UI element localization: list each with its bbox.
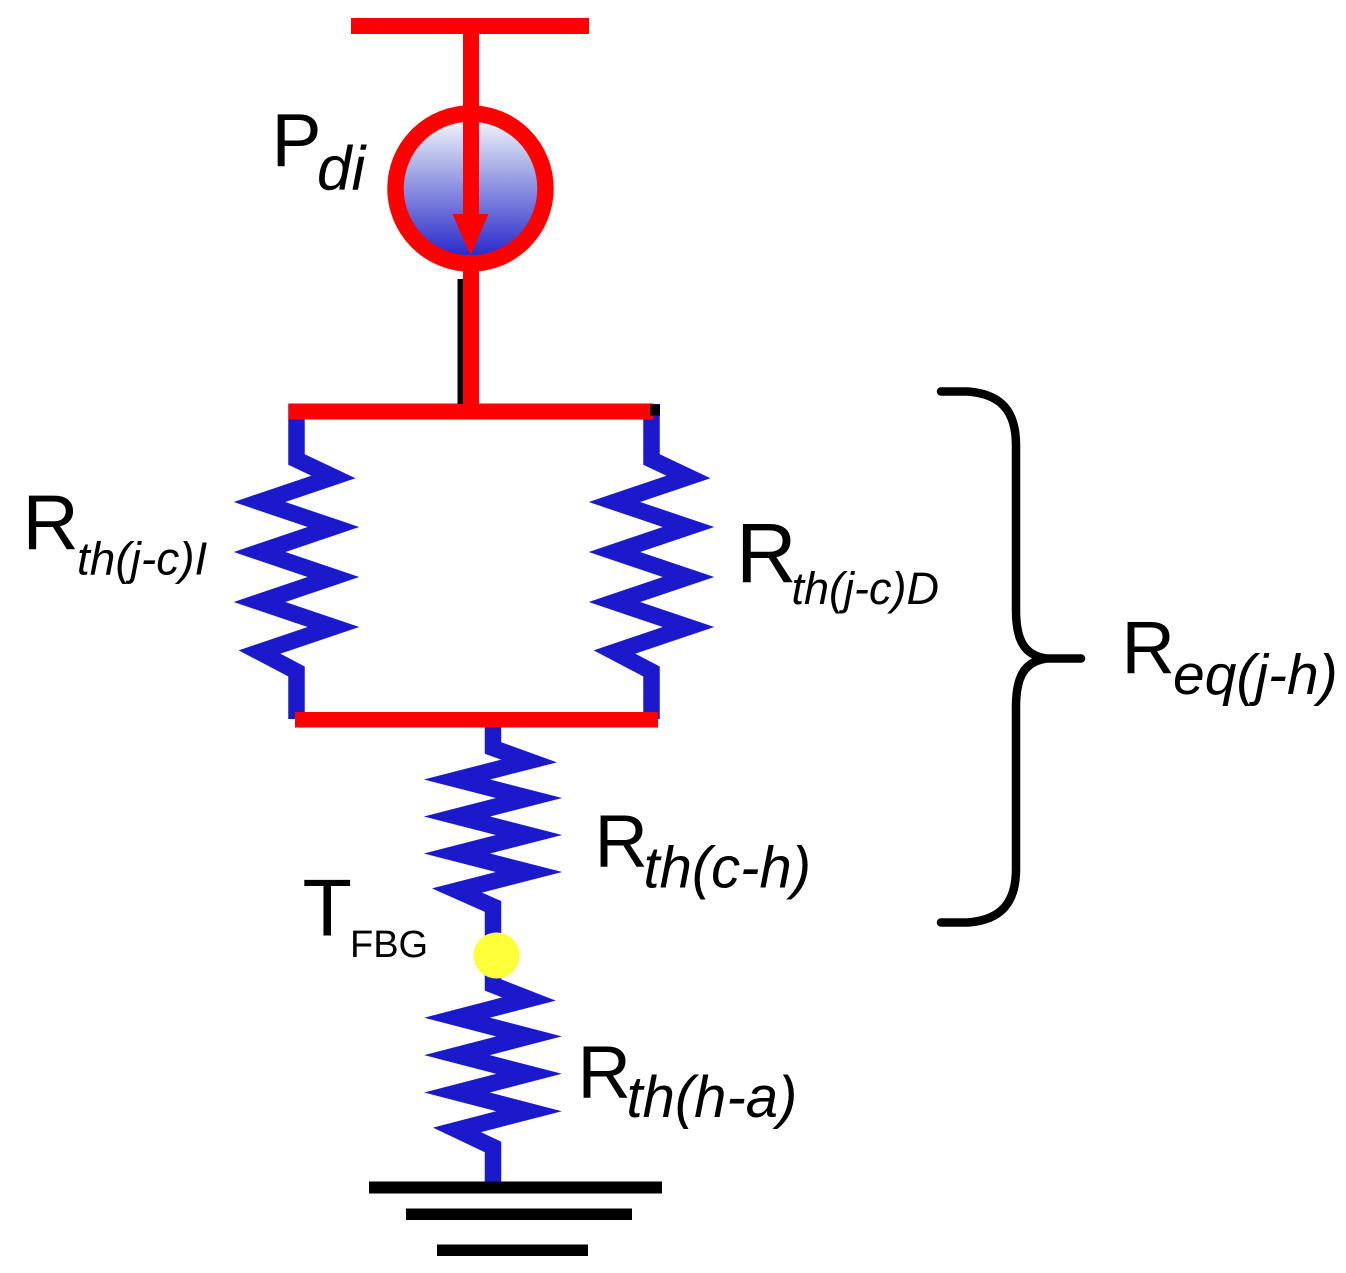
svg-text:th(c-h): th(c-h) [644, 836, 812, 901]
svg-text:R: R [736, 506, 797, 600]
svg-text:di: di [317, 135, 367, 204]
svg-text:th(j-c)I: th(j-c)I [77, 533, 208, 585]
svg-text:R: R [595, 800, 648, 883]
svg-text:th(h-a): th(h-a) [627, 1065, 798, 1130]
svg-text:R: R [1122, 606, 1175, 689]
svg-text:P: P [272, 98, 322, 182]
svg-text:eq(j-h): eq(j-h) [1173, 643, 1338, 707]
svg-text:th(j-c)D: th(j-c)D [792, 563, 939, 614]
svg-text:R: R [578, 1031, 631, 1114]
svg-text:R: R [23, 479, 79, 567]
svg-text:T: T [303, 864, 352, 954]
svg-text:FBG: FBG [350, 924, 428, 966]
